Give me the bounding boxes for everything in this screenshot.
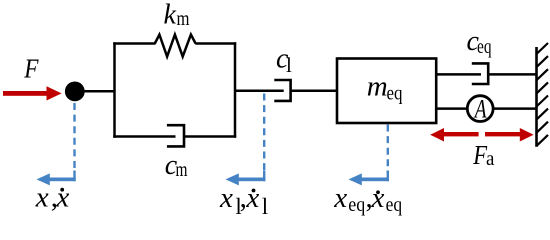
label m_eq (367, 71, 403, 105)
svg-text:x: x (371, 182, 385, 214)
wire node to parallel branch (83, 90, 115, 93)
svg-text:eq: eq (348, 194, 365, 216)
label k_m (164, 0, 190, 31)
label x_eq, x_eq dot (333, 182, 402, 216)
damper c_m cup (167, 125, 184, 146)
wire accelerometer to wall (493, 107, 537, 110)
displacement arrow x_eq (349, 171, 390, 186)
bottom wire right of damper (184, 135, 236, 138)
displacement arrow x (37, 171, 76, 186)
force arrow F (3, 86, 62, 100)
label c_l (276, 44, 292, 78)
svg-text:F: F (23, 53, 38, 83)
svg-text:eq: eq (386, 194, 403, 216)
svg-text:x: x (219, 182, 233, 214)
displacement marker x_eq (dashed line) (387, 125, 389, 173)
svg-text:l: l (262, 194, 268, 219)
svg-text:A: A (473, 95, 486, 124)
label F_a (472, 140, 494, 170)
parallel branch right vertical wire (234, 42, 237, 137)
wire parallel branch to damper c_l rod (235, 90, 284, 93)
damper c_l cup (274, 80, 290, 101)
svg-text:m: m (367, 71, 388, 103)
label x, xdot (35, 182, 70, 214)
svg-text:x: x (333, 182, 347, 214)
accelerometer A (circle) (467, 96, 493, 122)
node (input point, black circle) (65, 82, 85, 102)
displacement arrow x_l (226, 171, 266, 186)
label c_eq (467, 26, 492, 58)
wall (fixed support) vertical line (535, 47, 538, 147)
wall hatching (537, 43, 549, 146)
svg-text:a: a (486, 148, 495, 170)
top wire right of spring (195, 42, 236, 45)
damper c_m piston rod (bottom wire left) (113, 135, 175, 138)
svg-text:eq: eq (477, 36, 492, 58)
svg-text:l: l (286, 53, 292, 77)
actuation force double arrow F_a (430, 128, 533, 142)
displacement marker x_l (dashed line) (263, 94, 265, 173)
wire mass to damper c_eq rod (436, 73, 481, 76)
svg-text:x: x (55, 182, 69, 214)
spring k_m (zigzag) (155, 35, 196, 57)
displacement marker x (dashed line) (73, 103, 75, 172)
svg-text:x: x (245, 182, 259, 214)
top wire left of spring (113, 42, 155, 45)
svg-text:m: m (176, 159, 188, 181)
svg-text:eq: eq (387, 83, 403, 105)
damper c_eq cup (472, 63, 488, 84)
wire mass to accelerometer (436, 107, 467, 110)
wire damper c_l to mass (291, 90, 338, 93)
mass m_eq box (337, 59, 436, 124)
label c_m (165, 150, 188, 181)
svg-text:x: x (35, 182, 49, 214)
svg-text:m: m (177, 8, 190, 30)
wire damper c_eq to wall (488, 73, 537, 76)
label x_l, x_l dot (219, 182, 268, 219)
parallel branch left vertical wire (113, 42, 116, 137)
svg-text:k: k (164, 0, 177, 31)
